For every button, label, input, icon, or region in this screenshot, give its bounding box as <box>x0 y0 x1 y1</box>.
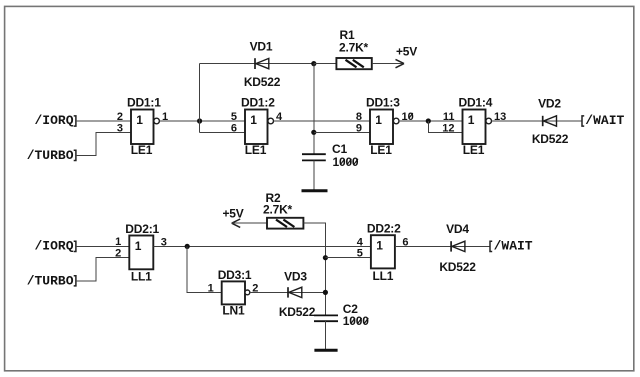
svg-text:VD2: VD2 <box>538 97 561 111</box>
wire vertical to VD1 line <box>199 64 201 133</box>
svg-text:LE1: LE1 <box>245 143 267 157</box>
node junction <box>426 118 431 123</box>
wire DD1:1 out to DD1:2 pin 5 <box>159 120 245 122</box>
power +5V (bottom) <box>222 206 267 227</box>
svg-text:/TURBO: /TURBO <box>27 148 74 163</box>
wire to DD1:3 pin 9 <box>314 131 370 133</box>
svg-text:/IORQ: /IORQ <box>34 113 73 128</box>
node /TURBO (top) <box>27 148 76 163</box>
resistor R1 <box>314 28 372 69</box>
diode VD2 <box>532 97 569 146</box>
resistor R2 <box>263 191 303 229</box>
svg-text:/TURBO: /TURBO <box>27 273 74 288</box>
svg-text:8: 8 <box>356 111 362 123</box>
gate DD2:1 <box>125 222 159 283</box>
svg-text:11: 11 <box>443 111 455 123</box>
wire down to DD3:1 input <box>187 246 222 292</box>
diode VD1 <box>244 39 281 89</box>
svg-text:3: 3 <box>117 122 123 134</box>
power +5V (top) <box>372 45 417 68</box>
node junction pin 9 <box>311 130 316 135</box>
node /WAIT (top) <box>582 113 625 128</box>
svg-text:5: 5 <box>231 111 237 123</box>
svg-text:DD1:4: DD1:4 <box>459 96 493 110</box>
node /IORQ (top) <box>34 113 75 128</box>
svg-text:9: 9 <box>356 122 362 134</box>
capacitor C1 <box>302 142 359 169</box>
svg-text:LE1: LE1 <box>131 143 153 157</box>
svg-text:1: 1 <box>376 239 383 253</box>
wire DD1:2 out to DD1:3 pin 8 <box>274 120 371 122</box>
svg-text:VD3: VD3 <box>284 270 307 284</box>
node junction pin 5 <box>323 255 328 260</box>
svg-text:/WAIT: /WAIT <box>494 239 533 254</box>
svg-text:2: 2 <box>117 111 123 123</box>
wire /TURBO to DD2:1 pin 2 <box>76 258 129 281</box>
wire VD1 feedback <box>200 63 314 65</box>
node junction <box>197 118 202 123</box>
wire /IORQ to DD2:1 pin 1 <box>76 245 129 247</box>
svg-text:/IORQ: /IORQ <box>34 239 73 254</box>
gate DD1:1 <box>127 96 161 158</box>
svg-text:+5V: +5V <box>222 206 243 220</box>
wire DD2:2 out to VD4 <box>395 245 490 247</box>
svg-text:1000: 1000 <box>343 314 369 328</box>
gate DD1:3 <box>366 96 400 158</box>
wire /TURBO to DD1:1 pin 3 <box>76 132 131 155</box>
svg-text:VD1: VD1 <box>250 39 273 53</box>
svg-text:4: 4 <box>357 236 364 248</box>
svg-text:LL1: LL1 <box>373 269 394 283</box>
wire C2 to ground <box>324 321 326 350</box>
gate DD1:2 <box>241 96 275 158</box>
node junction <box>185 244 190 249</box>
wire to DD2:2 pin 5 <box>325 257 371 259</box>
diode VD3 <box>279 270 316 319</box>
svg-text:LE1: LE1 <box>370 143 392 157</box>
svg-text:2.7K*: 2.7K* <box>263 202 293 216</box>
svg-text:DD1:3: DD1:3 <box>366 96 400 110</box>
wire junction down to C1 <box>313 64 315 154</box>
wire DD1:4 out to VD2 <box>492 120 583 122</box>
ground (C1) <box>302 189 328 192</box>
svg-text:KD522: KD522 <box>532 132 569 146</box>
node /IORQ (bottom) <box>34 239 75 254</box>
svg-text:KD522: KD522 <box>439 260 476 274</box>
svg-text:DD1:1: DD1:1 <box>127 96 161 110</box>
svg-text:1: 1 <box>375 113 382 127</box>
svg-text:1: 1 <box>136 113 143 127</box>
svg-text:2.7K*: 2.7K* <box>339 40 369 54</box>
svg-text:DD1:2: DD1:2 <box>241 96 275 110</box>
svg-text:KD522: KD522 <box>279 305 316 319</box>
wire C1 to ground <box>313 160 315 190</box>
wire DD1:3 out to DD1:4 pin 11 <box>399 120 463 122</box>
svg-text:LN1: LN1 <box>222 304 245 318</box>
svg-text:12: 12 <box>442 122 454 134</box>
svg-text:/WAIT: /WAIT <box>585 113 624 128</box>
node junction VD3 <box>323 290 328 295</box>
svg-text:1: 1 <box>135 239 142 253</box>
node /TURBO (bottom) <box>27 273 76 288</box>
capacitor C2 <box>314 302 369 328</box>
svg-text:5: 5 <box>357 248 363 260</box>
wire to DD1:2 pin 6 <box>200 131 245 133</box>
gate DD2:2 <box>367 222 401 283</box>
diode VD4 <box>439 222 476 274</box>
svg-text:6: 6 <box>231 122 237 134</box>
wire /IORQ to DD1:1 pin 2 <box>76 120 131 122</box>
svg-text:+5V: +5V <box>396 45 417 59</box>
svg-text:DD3:1: DD3:1 <box>218 268 252 282</box>
svg-text:LL1: LL1 <box>131 269 152 283</box>
node /WAIT (bottom) <box>490 239 533 254</box>
node junction R1/VD1/C1 <box>311 61 316 66</box>
svg-text:KD522: KD522 <box>244 75 281 89</box>
ground (C2) <box>314 349 337 352</box>
svg-text:1: 1 <box>115 236 121 248</box>
svg-text:DD2:2: DD2:2 <box>367 222 401 236</box>
wire DD2:1 out to DD2:2 pin 4 <box>153 245 371 247</box>
wire R2 to vertical <box>303 223 325 315</box>
svg-text:1: 1 <box>250 113 257 127</box>
svg-text:1: 1 <box>208 282 214 294</box>
gate DD3:1 <box>218 268 252 318</box>
svg-text:1000: 1000 <box>333 155 359 169</box>
svg-text:DD2:1: DD2:1 <box>125 222 159 236</box>
svg-text:2: 2 <box>115 248 121 260</box>
wire down to pin 12 <box>428 121 462 132</box>
svg-text:LE1: LE1 <box>463 143 485 157</box>
svg-text:VD4: VD4 <box>446 222 469 236</box>
svg-text:1: 1 <box>468 113 475 127</box>
pin 10 <box>402 111 414 123</box>
wire DD3:1 out to VD3 <box>250 291 326 293</box>
gate DD1:4 <box>459 96 493 158</box>
